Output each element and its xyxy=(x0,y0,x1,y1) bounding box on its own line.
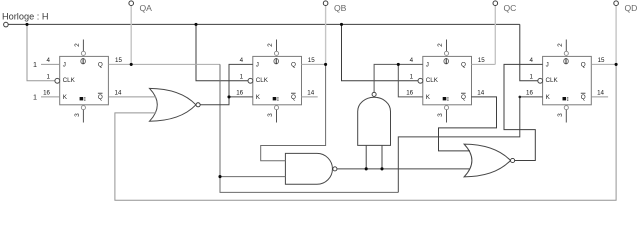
svg-text:1: 1 xyxy=(47,73,51,80)
svg-text:1: 1 xyxy=(240,73,244,80)
svg-text:1: 1 xyxy=(410,73,414,80)
flip-flop U4 box xyxy=(543,56,592,104)
wire U3 Qbar to NOR G4 upper input xyxy=(439,97,497,151)
svg-text:J: J xyxy=(546,61,549,68)
terminal QC xyxy=(493,1,498,6)
U3 preset stub pin xyxy=(446,40,448,52)
wire QA rail up to U4 K xyxy=(398,97,542,192)
svg-text:Q: Q xyxy=(461,94,466,101)
wire NAND G2 output to NAND G3 inputs and NOR G4 lower input xyxy=(337,168,470,170)
U4 preset glyph xyxy=(564,58,569,64)
svg-text:2: 2 xyxy=(74,43,81,47)
svg-text:J: J xyxy=(426,61,429,68)
svg-text:QA: QA xyxy=(140,3,153,13)
wire U1 Qbar to NOR G1 upper input xyxy=(109,96,157,98)
wire QB terminal drop xyxy=(325,6,327,65)
U2 preset glyph xyxy=(274,58,279,64)
flip-flop U1 box xyxy=(60,56,109,104)
node junction U2 JK tie xyxy=(227,95,230,98)
svg-text:CLK: CLK xyxy=(63,77,76,84)
U4 pin numbers xyxy=(526,57,605,96)
wire NAND G3 output to U3 J and K xyxy=(374,64,423,97)
U4 Qbar overline xyxy=(581,92,586,94)
wire clock net H: main horizontal xyxy=(8,23,520,25)
svg-text:3: 3 xyxy=(74,113,81,117)
node junction on clock at U2 tap xyxy=(194,23,197,26)
svg-text:14: 14 xyxy=(477,89,484,96)
svg-text:QD: QD xyxy=(625,3,638,13)
terminal QA xyxy=(129,1,134,6)
wire U4 Qbar stub xyxy=(591,96,608,98)
U1 clear stub pin xyxy=(81,106,85,110)
U3 clear stub pin xyxy=(444,106,448,110)
svg-text:Horloge : H: Horloge : H xyxy=(2,12,48,22)
U4 CLK bubble xyxy=(538,78,543,83)
svg-text:14: 14 xyxy=(597,89,604,96)
terminal H (clock input) xyxy=(4,22,9,27)
U4 inner labels J CLK K Q Qbar xyxy=(546,61,586,101)
svg-text:14: 14 xyxy=(307,89,314,96)
terminal QB xyxy=(323,1,328,6)
svg-text:Q: Q xyxy=(98,94,103,101)
NAND gate G3 body (vertical, points up) xyxy=(358,97,391,145)
node QB junction xyxy=(324,63,327,66)
svg-text:4: 4 xyxy=(529,57,533,64)
U3 preset glyph xyxy=(444,58,449,64)
wire clock tap to U4 CLK xyxy=(520,24,543,80)
node junction NAND G3 leg 2 xyxy=(380,167,383,170)
U4 clear stub pin xyxy=(564,106,568,110)
svg-text:Q: Q xyxy=(98,61,103,68)
node junction NAND G3 leg 1 xyxy=(365,167,368,170)
svg-text:3: 3 xyxy=(267,113,274,117)
svg-text:1: 1 xyxy=(529,73,533,80)
U3 pin numbers xyxy=(406,57,485,96)
svg-text:3: 3 xyxy=(557,113,564,117)
U4 clear glyph xyxy=(563,97,569,101)
svg-text:Q: Q xyxy=(291,94,296,101)
U3 clear glyph xyxy=(443,97,449,101)
U2 clear stub pin xyxy=(274,106,278,110)
U4 preset stub pin xyxy=(565,40,567,52)
node QA junction xyxy=(130,63,133,66)
wire QC terminal drop xyxy=(494,6,496,65)
svg-text:16: 16 xyxy=(43,89,50,96)
U1 preset stub pin xyxy=(82,40,84,52)
wire QD terminal drop xyxy=(615,6,617,65)
svg-text:4: 4 xyxy=(240,57,244,64)
svg-text:2: 2 xyxy=(437,43,444,47)
wire clock tap to U2 CLK xyxy=(196,24,253,80)
wire NAND G3 input leg 1 xyxy=(365,145,367,168)
NOR gate G4 body xyxy=(464,144,510,177)
svg-text:16: 16 xyxy=(236,89,243,96)
wire NAND G3 input leg 2 xyxy=(381,145,383,168)
svg-text:3: 3 xyxy=(437,113,444,117)
NAND G2 output bubble xyxy=(333,167,337,171)
U1 preset glyph xyxy=(81,58,86,64)
U3 Qbar overline xyxy=(461,92,466,94)
node corner dot U4 K xyxy=(519,96,522,99)
terminal QD xyxy=(614,1,619,6)
svg-text:15: 15 xyxy=(598,57,605,64)
wire NOR G4 output to U4 J xyxy=(504,64,543,160)
U2 inner labels J CLK K Q Qbar xyxy=(256,61,296,101)
U2 CLK bubble xyxy=(248,78,253,83)
U3 inner labels J CLK K Q Qbar xyxy=(426,61,466,101)
svg-text:J: J xyxy=(63,61,66,68)
NAND gate G2 body xyxy=(285,153,332,184)
svg-text:16: 16 xyxy=(526,89,533,96)
U3 CLK bubble xyxy=(418,78,423,83)
wire logic-1 to U1 K xyxy=(41,96,60,98)
svg-text:CLK: CLK xyxy=(256,77,269,84)
U1 CLK bubble xyxy=(55,78,60,83)
node junction on clock at U1 tap xyxy=(25,23,28,26)
wire logic-1 to U1 J xyxy=(41,63,60,65)
NOR G4 output bubble xyxy=(511,158,515,162)
U1 Qbar overline xyxy=(98,92,103,94)
NAND G3 output bubble xyxy=(372,92,376,96)
wire QD feedback bottom rail to NOR G1 lower input xyxy=(115,64,616,200)
U2 clear glyph xyxy=(273,97,279,101)
svg-text:Q: Q xyxy=(581,61,586,68)
wire U2 Q to node QB xyxy=(301,63,325,65)
node junction on clock at U3 tap xyxy=(340,23,343,26)
svg-text:QB: QB xyxy=(334,3,347,13)
svg-text:2: 2 xyxy=(557,43,564,47)
wire QA feedback down to NAND G2 and bottom rail xyxy=(220,64,398,192)
U1 inner labels J CLK K Q Qbar xyxy=(63,61,103,101)
U2 pin numbers xyxy=(236,57,315,96)
flip-flop U2 box xyxy=(253,56,302,104)
svg-text:15: 15 xyxy=(478,57,485,64)
U1 pin numbers xyxy=(43,57,122,96)
wire QA terminal drop xyxy=(130,6,132,65)
svg-text:J: J xyxy=(256,61,259,68)
U2 Qbar overline xyxy=(291,92,296,94)
node junction QA to NAND G2 xyxy=(218,175,221,178)
svg-text:15: 15 xyxy=(115,57,122,64)
NOR G1 output bubble xyxy=(196,103,200,107)
svg-text:1: 1 xyxy=(33,60,37,69)
node QD junction xyxy=(615,63,618,66)
svg-text:15: 15 xyxy=(308,57,315,64)
svg-text:Q: Q xyxy=(461,61,466,68)
svg-text:4: 4 xyxy=(47,57,51,64)
node junction U3 JK tie xyxy=(397,63,400,66)
wire U4 Q to node QD xyxy=(591,63,616,65)
svg-text:2: 2 xyxy=(267,43,274,47)
wire U1 Q to node QA and corner xyxy=(109,63,221,65)
svg-text:Q: Q xyxy=(581,94,586,101)
wire U2 Qbar stub xyxy=(301,96,317,98)
svg-text:CLK: CLK xyxy=(426,77,439,84)
U2 preset stub pin xyxy=(276,40,278,52)
svg-text:1: 1 xyxy=(33,93,37,102)
wire U3 Q to node QC xyxy=(471,63,495,65)
svg-text:4: 4 xyxy=(410,57,414,64)
wire clock tap to U3 CLK xyxy=(342,24,423,80)
flip-flop U3 box xyxy=(423,56,472,104)
wire NOR G1 output to U2 J and K xyxy=(196,64,253,104)
svg-text:QC: QC xyxy=(504,3,517,13)
svg-text:14: 14 xyxy=(115,89,122,96)
svg-text:16: 16 xyxy=(406,89,413,96)
wire QB feedback to NAND G2 upper input xyxy=(261,64,326,160)
NOR gate G1 body xyxy=(150,88,196,121)
wire QA branch to NAND G2 lower input xyxy=(220,176,285,178)
wire clock tap to U1 CLK xyxy=(27,24,60,80)
U1 clear glyph xyxy=(80,97,86,101)
svg-text:Q: Q xyxy=(291,61,296,68)
svg-text:CLK: CLK xyxy=(546,77,559,84)
